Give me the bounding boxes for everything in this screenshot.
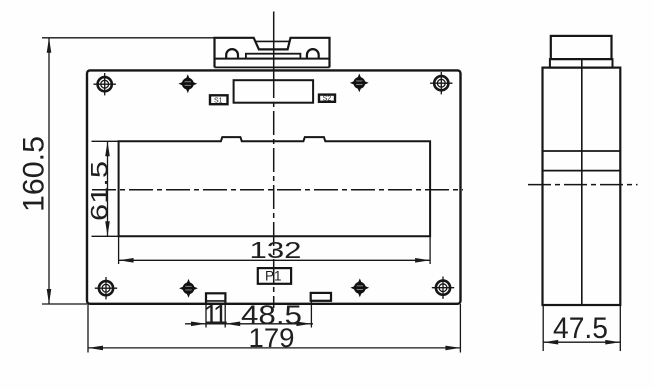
vertical center line front view [273,12,275,75]
DIN clip outer box with top notch [215,38,330,68]
dimension 61.5 extension lines [92,141,119,236]
dimension 160.5 extension line top [42,37,215,39]
DIN clip bottom edge [215,66,330,68]
side view cap [551,36,612,59]
dimension 11 and 48.5 arrows [191,322,311,327]
dimension 47.5 arrows [543,340,620,345]
svg-text:132: 132 [250,237,302,263]
nameplate window rectangle [234,80,314,103]
mounting hole target top-left [94,73,116,95]
dimension 11 and 48.5 extension lines [206,301,311,328]
DIN clip left bump [226,49,238,58]
side view horizontal center line [528,184,638,186]
front view body outline [87,70,461,303]
dimension 47.5 line [543,341,620,343]
mounting hole target bottom-right [432,277,454,299]
DIN clip notch chord [256,40,290,42]
dimension 61.5 arrows [105,141,110,236]
screw symbol bottom-left [179,279,198,298]
dimension 179 extension lines [88,304,460,353]
dimension 160.5 line [48,38,50,304]
bottom terminal tab left [206,293,225,304]
dimension 132 extension lines [119,236,431,264]
DIN clip internal shelf line [215,58,330,60]
svg-text:61.5: 61.5 [87,161,114,221]
screw symbol top-left [178,74,197,93]
horizontal center line front view [92,189,463,191]
side view horizontal line 2 [543,170,621,172]
dimension 179 line [88,347,460,349]
side view body [543,68,621,305]
terminal label S2 box [319,95,335,102]
dimension 132 arrows [119,258,431,263]
P1 label box [258,268,291,284]
side view neck step [550,59,613,68]
screw symbol bottom-right [350,278,369,297]
svg-text:47.5: 47.5 [553,312,608,345]
side view horizontal line 1 [543,150,621,152]
dimension 160.5 arrows [47,38,52,304]
bottom small tab right [311,293,331,301]
svg-text:S1: S1 [214,97,223,104]
mounting hole target bottom-left [95,277,117,299]
svg-text:S2: S2 [323,96,332,103]
dimension 179 arrows [88,346,460,351]
central window opening with top tabs [119,137,431,236]
dimension 11 and 48.5 line [185,323,313,325]
DIN clip right bump [307,49,319,59]
svg-text:160.5: 160.5 [18,136,51,212]
dimension 47.5 extension lines [543,305,620,351]
dimension 61.5 line [107,141,109,236]
screw symbol top-right [350,74,369,93]
mounting hole target top-right [430,72,452,94]
terminal label S1 box [210,95,228,104]
dimension 132 line [119,259,431,261]
side view vertical center line [581,59,583,305]
svg-text:1: 1 [213,299,228,329]
DIN clip slide plate [246,54,301,59]
bottom terminal tab left inner line [206,300,225,302]
svg-text:P1: P1 [265,269,282,284]
dimension 160.5 extension line bottom [42,303,87,305]
svg-text:179: 179 [249,323,295,353]
